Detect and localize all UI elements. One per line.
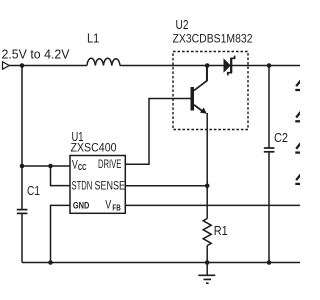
svg-text:C2: C2 — [274, 130, 288, 145]
resistor R1 — [203, 219, 211, 246]
svg-text:R1: R1 — [214, 223, 228, 238]
wire: input to L1 — [9, 65, 87, 67]
capacitor C2 — [264, 148, 275, 152]
wire: emitter down to R1 — [206, 113, 208, 219]
wire: C2 bottom lead — [268, 152, 270, 263]
svg-text:U2: U2 — [176, 17, 189, 32]
LED D3 (partial, right edge) — [295, 112, 301, 122]
wire: DRIVE to Q1 base — [125, 99, 190, 165]
svg-text:FB: FB — [112, 204, 121, 213]
junction dot: top wire / input rail — [20, 63, 25, 68]
wire: R1 to ground — [206, 246, 208, 276]
svg-text:GND: GND — [73, 201, 89, 212]
input port arrow — [3, 62, 10, 69]
inductor L1 — [87, 58, 120, 65]
svg-text:ZXSC400: ZXSC400 — [71, 141, 117, 155]
dashed box U2 — [173, 52, 248, 130]
junction dot: collector on top wire — [205, 63, 210, 68]
wire: junction to diode anode — [207, 65, 223, 67]
junction dot: SENSE / emitter — [205, 184, 210, 189]
junction dot: VCC feed on left rail — [20, 164, 25, 169]
capacitor C1 — [17, 210, 28, 214]
LED D4 (partial, right edge) — [295, 143, 301, 153]
diode D1 (schottky) — [224, 58, 231, 73]
svg-text:ZX3CDBS1M832: ZX3CDBS1M832 — [173, 32, 253, 46]
svg-text:2.5V to 4.2V: 2.5V to 4.2V — [2, 47, 70, 62]
svg-text:C1: C1 — [27, 183, 40, 198]
svg-text:SENSE: SENSE — [95, 180, 126, 192]
wire: GND pin down to bottom rail — [51, 205, 71, 262]
ground symbol — [198, 275, 215, 283]
junction dot: C2 on top wire — [267, 63, 272, 68]
svg-text:CC: CC — [78, 163, 87, 172]
wire: STDN drop vertical — [51, 166, 71, 186]
junction dot: GND wire on bottom rail — [48, 260, 53, 265]
svg-text:STDN: STDN — [72, 180, 93, 192]
wire: bottom ground rail — [22, 262, 300, 264]
svg-text:L1: L1 — [87, 31, 99, 46]
wire: C2 top lead — [268, 66, 270, 149]
transistor Q1 base bar — [191, 87, 195, 111]
junction dot: C2 on bottom rail — [267, 260, 272, 265]
wire: left rail down to C1 — [21, 66, 23, 210]
junction dot: R1 / bottom rail — [205, 260, 210, 265]
transistor Q1 emitter with arrow — [194, 105, 203, 112]
wire: diode cathode to right edge — [231, 65, 300, 67]
wire: VFB to right edge — [125, 204, 300, 206]
op-amp U1 box (ZXSC400) — [70, 156, 125, 214]
LED D2 (partial, right edge) — [295, 80, 301, 90]
wire: L1 to collector junction — [120, 65, 207, 67]
transistor Q1 collector — [194, 66, 207, 91]
svg-text:V: V — [105, 198, 111, 212]
junction dot: VCC / STDN tee — [48, 164, 53, 169]
LED D5 (partial, right edge) — [295, 174, 301, 184]
wire: VCC feed — [22, 165, 70, 167]
svg-text:DRIVE: DRIVE — [98, 159, 122, 171]
wire: SENSE to emitter node — [125, 185, 207, 187]
wire: C1 to bottom rail — [21, 213, 23, 262]
